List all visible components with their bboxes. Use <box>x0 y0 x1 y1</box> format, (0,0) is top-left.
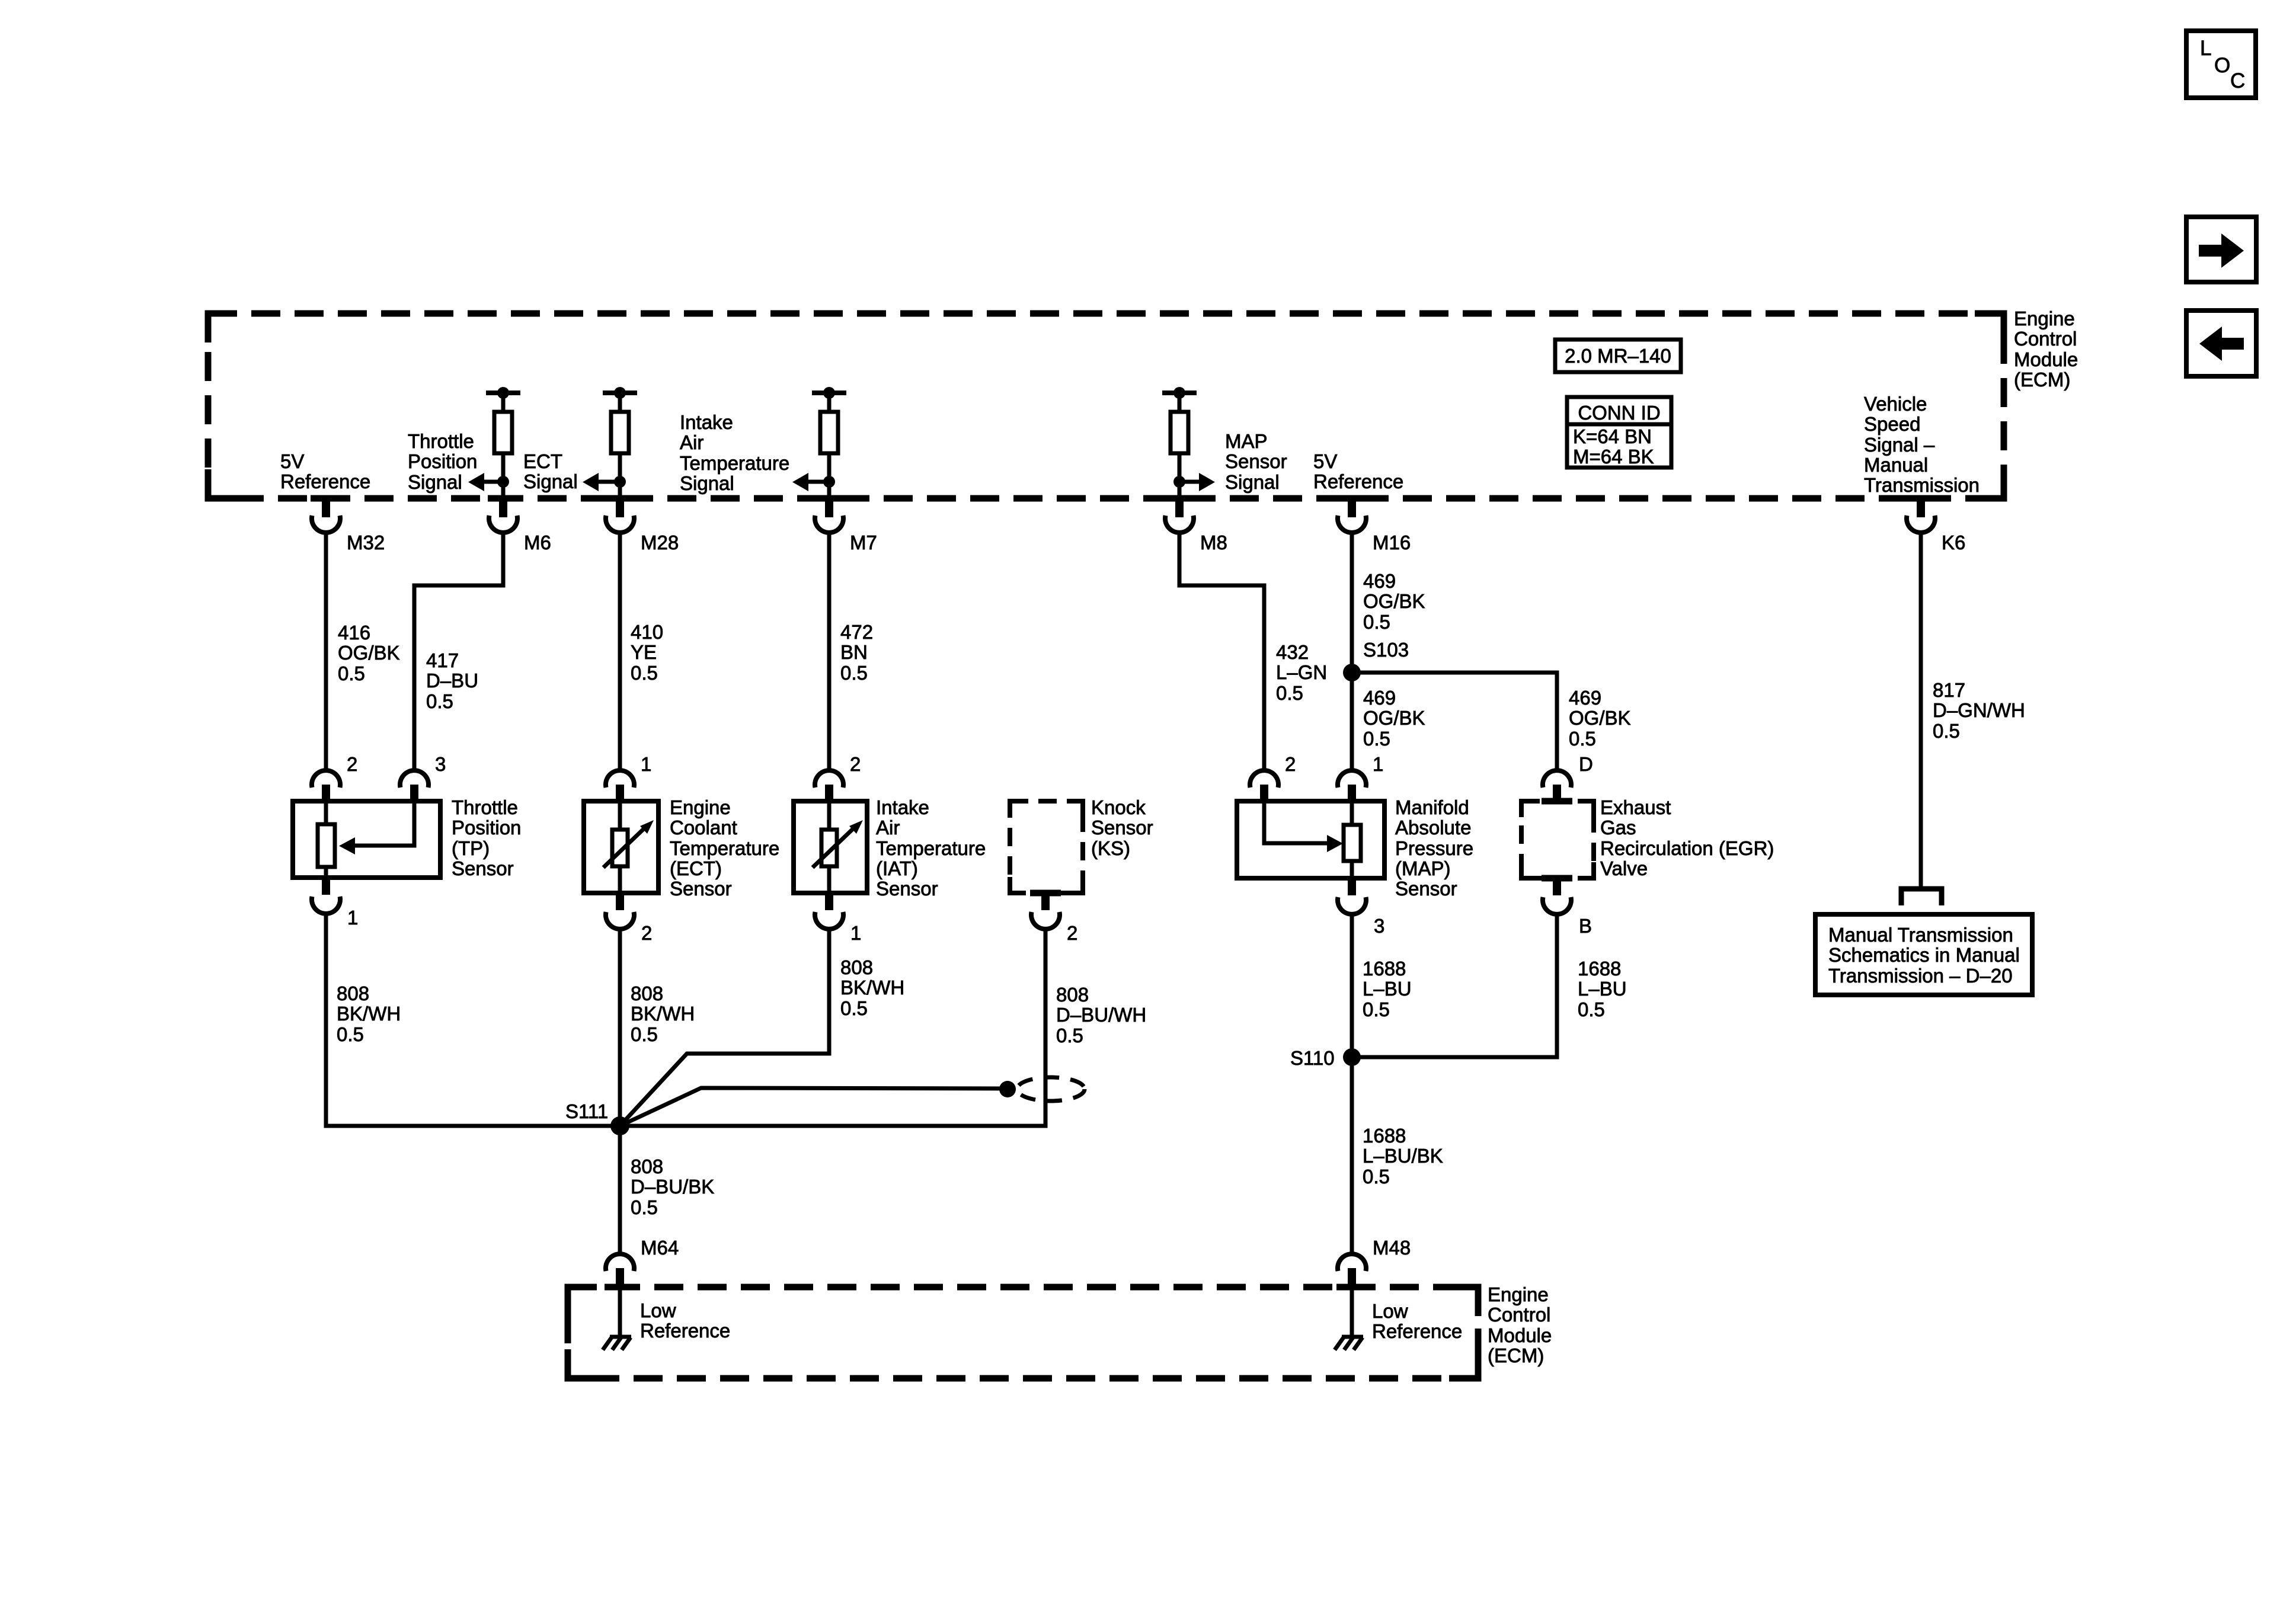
low reference wire M64 <box>618 1290 622 1336</box>
svg-text:S110: S110 <box>1290 1047 1335 1069</box>
svg-text:Signal: Signal <box>408 471 462 493</box>
ECM pin M48 <box>1338 1237 1411 1290</box>
svg-text:Transmission – D–20: Transmission – D–20 <box>1828 965 2013 987</box>
svg-text:3: 3 <box>435 753 446 775</box>
ECM bottom dashed box <box>568 1287 1478 1378</box>
svg-text:Signal: Signal <box>680 472 734 494</box>
ground symbol (M64 low reference) <box>603 1337 631 1350</box>
svg-text:M=64 BK: M=64 BK <box>1573 446 1654 468</box>
svg-text:D–BU/BK: D–BU/BK <box>631 1176 714 1198</box>
ECM label (bottom) <box>1488 1283 1552 1366</box>
svg-text:0.5: 0.5 <box>337 1023 364 1045</box>
wire 817 D-GN/WH: K6 to manual transmission <box>1919 530 1923 886</box>
svg-text:432: 432 <box>1276 641 1309 663</box>
svg-text:1: 1 <box>1373 753 1383 775</box>
svg-text:L–BU/BK: L–BU/BK <box>1363 1145 1443 1167</box>
drain wire to S111 <box>620 1088 1008 1126</box>
wire 410 YE: M28 to ECT pin 1 <box>618 530 622 770</box>
svg-text:Low: Low <box>640 1299 676 1321</box>
wire 432 L-GN: M8 jog to MAP pin 2 <box>1179 530 1264 770</box>
ECM pin M64 <box>606 1237 679 1290</box>
svg-text:M7: M7 <box>850 532 877 553</box>
svg-text:Sensor: Sensor <box>1395 878 1457 900</box>
svg-text:Module: Module <box>1488 1324 1552 1346</box>
svg-text:Schematics in Manual: Schematics in Manual <box>1828 944 2020 966</box>
svg-text:0.5: 0.5 <box>1276 682 1303 704</box>
wire 808 D-BU/BK: S111 to M64 <box>618 1126 622 1254</box>
splice S103 <box>1343 639 1409 681</box>
ECM pin M6 <box>489 499 551 553</box>
svg-text:M28: M28 <box>641 532 679 553</box>
wire 469 OG/BK: S103 to MAP pin 1 <box>1350 673 1354 770</box>
svg-text:OG/BK: OG/BK <box>1569 707 1631 729</box>
svg-text:0.5: 0.5 <box>1056 1025 1083 1046</box>
svg-text:Reference: Reference <box>640 1320 730 1342</box>
manual transmission callout box <box>1815 914 2032 995</box>
wire label 432 L-GN 0.5 <box>1276 641 1327 704</box>
wire 416 OG/BK: M32 to TP pin 2 <box>324 530 328 770</box>
svg-text:2.0 MR–140: 2.0 MR–140 <box>1565 345 1671 367</box>
off-page connector bracket (K6 wire end) <box>1901 889 1942 905</box>
MAP sensor pin 2 <box>1250 753 1296 802</box>
svg-text:Manual: Manual <box>1864 454 1928 476</box>
ECM pin K6 <box>1907 499 1965 553</box>
ECM label (top right) <box>2014 308 2078 391</box>
svg-text:Temperature: Temperature <box>876 837 986 859</box>
svg-text:Gas: Gas <box>1600 817 1636 838</box>
svg-text:OG/BK: OG/BK <box>1363 590 1425 612</box>
svg-text:OG/BK: OG/BK <box>1363 707 1425 729</box>
wire 1688 L-BU/BK: S110 to M48 <box>1350 1057 1354 1254</box>
svg-text:0.5: 0.5 <box>1363 611 1390 633</box>
svg-text:(ECM): (ECM) <box>1488 1345 1544 1366</box>
svg-text:0.5: 0.5 <box>338 662 365 684</box>
wire label 808 D-BU/WH 0.5 (KS) <box>1056 984 1146 1046</box>
svg-text:L: L <box>2200 37 2211 60</box>
svg-text:M16: M16 <box>1373 532 1411 553</box>
ECM pin M7 <box>815 499 877 553</box>
svg-text:Manual Transmission: Manual Transmission <box>1828 924 2013 946</box>
forward arrow box <box>2186 217 2256 282</box>
svg-text:(IAT): (IAT) <box>876 857 918 879</box>
svg-text:1: 1 <box>347 907 358 929</box>
svg-text:0.5: 0.5 <box>631 662 658 684</box>
svg-text:Recirculation (EGR): Recirculation (EGR) <box>1600 837 1774 859</box>
svg-text:Module: Module <box>2014 348 2078 370</box>
svg-text:D–BU/WH: D–BU/WH <box>1056 1004 1146 1026</box>
svg-text:808: 808 <box>631 1156 663 1177</box>
svg-text:0.5: 0.5 <box>840 997 868 1019</box>
wire 472 BN: M7 to IAT pin 2 <box>827 530 832 770</box>
CONN ID box <box>1567 397 1671 468</box>
svg-text:Transmission: Transmission <box>1864 474 1980 496</box>
svg-text:YE: YE <box>631 641 657 663</box>
wire 1688 L-BU: EGR pin B to S110 <box>1352 912 1557 1057</box>
net label 5V Reference (left) <box>280 450 370 492</box>
EGR label <box>1600 796 1774 879</box>
wire label 417 D-BU 0.5 <box>426 649 478 712</box>
svg-text:K=64 BN: K=64 BN <box>1573 425 1652 447</box>
svg-text:K6: K6 <box>1942 532 1965 553</box>
EGR pin B <box>1543 878 1592 937</box>
svg-text:L–BU: L–BU <box>1578 978 1627 1000</box>
ECM pin M32 <box>312 499 385 553</box>
svg-text:0.5: 0.5 <box>631 1023 658 1045</box>
svg-text:B: B <box>1579 915 1592 937</box>
svg-text:MAP: MAP <box>1225 430 1268 452</box>
TP sensor label <box>452 796 521 879</box>
svg-text:M8: M8 <box>1200 532 1227 553</box>
svg-text:Air: Air <box>876 817 900 838</box>
wire 808 BK/WH: ECT pin 2 down to S111 <box>618 927 622 1126</box>
svg-text:808: 808 <box>337 982 369 1004</box>
svg-text:0.5: 0.5 <box>1578 998 1605 1020</box>
svg-text:Vehicle: Vehicle <box>1864 393 1927 415</box>
wire label 410 YE 0.5 <box>631 621 663 684</box>
svg-text:OG/BK: OG/BK <box>338 642 400 664</box>
svg-text:0.5: 0.5 <box>1363 1166 1390 1188</box>
resistor + arrow, TP signal (above M6) <box>468 387 520 500</box>
svg-text:410: 410 <box>631 621 663 643</box>
wire label 817 D-GN/WH 0.5 <box>1933 679 2025 742</box>
wire label 469 OG/BK 0.5 (upper) <box>1363 570 1425 633</box>
resistor + arrow, ECT signal (above M28) <box>583 387 637 500</box>
wire 469 OG/BK: S103 branch to EGR pin D <box>1352 673 1557 770</box>
ECT sensor pin 2 <box>606 893 652 944</box>
svg-text:S111: S111 <box>565 1100 608 1122</box>
svg-text:Pressure: Pressure <box>1395 837 1473 859</box>
svg-text:Signal –: Signal – <box>1864 434 1935 456</box>
EGR valve dashed box <box>1521 801 1594 878</box>
ECM pin M8 <box>1165 499 1227 553</box>
svg-text:Signal: Signal <box>523 470 578 492</box>
ECM top dashed box <box>208 313 2004 498</box>
svg-text:Sensor: Sensor <box>670 878 732 900</box>
svg-text:Engine: Engine <box>670 796 731 818</box>
IAT sensor pin 2 <box>815 753 861 802</box>
wire 1688 L-BU: MAP pin 3 to S110 <box>1350 912 1354 1057</box>
svg-text:0.5: 0.5 <box>840 662 868 684</box>
svg-text:469: 469 <box>1363 687 1396 709</box>
wire 417 D-BU: M6 jog to TP pin 3 <box>414 530 503 770</box>
svg-text:Throttle: Throttle <box>452 796 518 818</box>
splice S111 <box>565 1100 629 1135</box>
svg-text:0.5: 0.5 <box>631 1196 658 1218</box>
wire label 1688 L-BU 0.5 (MAP) <box>1363 958 1412 1020</box>
svg-text:Manifold: Manifold <box>1395 796 1469 818</box>
wire 808 BK/WH: IAT pin 1 jog to S111 <box>620 927 829 1126</box>
engine coolant temperature sensor box <box>584 801 658 893</box>
back arrow box <box>2186 311 2256 376</box>
svg-text:ECT: ECT <box>523 450 562 472</box>
svg-text:D–BU: D–BU <box>426 670 478 692</box>
svg-text:472: 472 <box>840 621 873 643</box>
svg-text:M6: M6 <box>524 532 551 553</box>
svg-text:(ECT): (ECT) <box>670 857 722 879</box>
svg-text:469: 469 <box>1569 687 1601 709</box>
ECT sensor label <box>670 796 779 900</box>
IAT sensor pin 1 <box>815 893 861 944</box>
EGR pin D <box>1543 753 1593 802</box>
svg-text:Coolant: Coolant <box>670 817 737 838</box>
svg-text:L–GN: L–GN <box>1276 661 1327 683</box>
svg-text:5V: 5V <box>1313 450 1337 472</box>
svg-text:Intake: Intake <box>876 796 929 818</box>
svg-text:Speed: Speed <box>1864 413 1920 435</box>
net label Throttle Position Signal <box>408 430 477 493</box>
svg-text:Reference: Reference <box>1372 1320 1462 1342</box>
svg-text:Position: Position <box>408 450 477 472</box>
svg-text:Reference: Reference <box>1313 470 1403 492</box>
svg-text:2: 2 <box>1285 753 1296 775</box>
splice S110 <box>1290 1047 1361 1069</box>
manifold absolute pressure sensor box <box>1237 801 1384 878</box>
svg-text:(KS): (KS) <box>1091 837 1130 859</box>
ECT sensor pin 1 <box>606 753 651 802</box>
svg-text:3: 3 <box>1374 915 1384 937</box>
wire 469 OG/BK: M16 down to S103 <box>1350 530 1354 673</box>
wire 808 BK/WH: TP pin 1 down to S111 <box>326 911 620 1126</box>
svg-text:D: D <box>1579 753 1593 775</box>
MAP sensor label <box>1395 796 1473 900</box>
svg-text:469: 469 <box>1363 570 1396 592</box>
svg-text:416: 416 <box>338 622 370 644</box>
TP sensor pin 2 <box>312 753 357 802</box>
svg-text:BK/WH: BK/WH <box>631 1003 695 1025</box>
svg-text:S103: S103 <box>1363 639 1409 661</box>
svg-text:2: 2 <box>850 753 861 775</box>
svg-text:0.5: 0.5 <box>426 690 453 712</box>
drain splice dot <box>999 1081 1016 1097</box>
label Low Reference (M48) <box>1372 1300 1462 1342</box>
TP sensor pin 3 <box>400 753 446 802</box>
svg-text:Engine: Engine <box>2014 308 2075 329</box>
svg-text:CONN ID: CONN ID <box>1578 402 1660 424</box>
label Low Reference (M64) <box>640 1299 730 1342</box>
svg-text:O: O <box>2214 54 2230 77</box>
wire label 808 BK/WH 0.5 (IAT) <box>840 956 904 1019</box>
svg-text:808: 808 <box>631 982 663 1004</box>
svg-text:Air: Air <box>680 431 703 453</box>
svg-text:Engine: Engine <box>1488 1283 1549 1305</box>
svg-text:417: 417 <box>426 649 459 671</box>
resistor + arrow, MAP signal (above M8) <box>1162 387 1215 500</box>
svg-text:1: 1 <box>850 922 861 944</box>
wire label 472 BN 0.5 <box>840 621 873 684</box>
IAT sensor label <box>876 796 986 900</box>
wire label 416 OG/BK 0.5 <box>338 622 400 684</box>
dash segments at pin crossings <box>311 498 1936 1287</box>
intake air temperature sensor box <box>794 801 867 893</box>
svg-text:1688: 1688 <box>1578 958 1621 980</box>
svg-text:(ECM): (ECM) <box>2014 369 2070 391</box>
svg-text:Throttle: Throttle <box>408 430 474 452</box>
MAP sensor pin 1 <box>1338 753 1383 802</box>
resistor + arrow, IAT signal (above M7) <box>792 387 846 500</box>
KS label <box>1091 796 1153 859</box>
svg-text:2: 2 <box>1067 922 1077 944</box>
svg-text:Sensor: Sensor <box>876 878 938 900</box>
net label ECT Signal <box>523 450 578 492</box>
svg-text:Exhaust: Exhaust <box>1600 796 1671 818</box>
svg-text:Temperature: Temperature <box>670 837 779 859</box>
svg-text:(MAP): (MAP) <box>1395 857 1451 879</box>
wire label 469 OG/BK 0.5 (right branch) <box>1569 687 1631 750</box>
ECM pin M28 <box>606 499 679 553</box>
knock sensor dashed box <box>1010 801 1083 893</box>
svg-text:M48: M48 <box>1373 1237 1411 1259</box>
svg-text:5V: 5V <box>280 450 304 472</box>
svg-text:Valve: Valve <box>1600 857 1648 879</box>
svg-text:1: 1 <box>641 753 651 775</box>
svg-text:BN: BN <box>840 641 868 663</box>
svg-text:Control: Control <box>1488 1304 1550 1326</box>
ECM pin M16 <box>1338 499 1411 553</box>
svg-text:Sensor: Sensor <box>452 857 514 879</box>
svg-text:Intake: Intake <box>680 411 733 433</box>
svg-text:Sensor: Sensor <box>1225 450 1287 472</box>
svg-text:M64: M64 <box>641 1237 679 1259</box>
svg-text:808: 808 <box>840 956 873 978</box>
net label Intake Air Temperature Signal <box>680 411 789 494</box>
svg-text:0.5: 0.5 <box>1363 728 1390 750</box>
svg-text:0.5: 0.5 <box>1363 998 1390 1020</box>
net label Vehicle Speed Signal - Manual Transmission <box>1864 393 1980 496</box>
svg-text:Temperature: Temperature <box>680 452 789 474</box>
LOC reference box <box>2186 31 2256 98</box>
low reference wire M48 <box>1350 1290 1354 1336</box>
wire label 1688 L-BU/BK 0.5 <box>1363 1125 1443 1188</box>
svg-text:Knock: Knock <box>1091 796 1146 818</box>
svg-text:1688: 1688 <box>1363 1125 1406 1147</box>
2.0 MR-140 box <box>1555 340 1681 372</box>
svg-text:0.5: 0.5 <box>1569 728 1596 750</box>
wire label 808 BK/WH 0.5 (TP) <box>337 982 401 1045</box>
svg-text:808: 808 <box>1056 984 1089 1006</box>
svg-text:L–BU: L–BU <box>1363 978 1412 1000</box>
svg-text:Absolute: Absolute <box>1395 817 1471 838</box>
svg-text:Low: Low <box>1372 1300 1408 1322</box>
svg-text:Sensor: Sensor <box>1091 817 1153 838</box>
svg-text:Signal: Signal <box>1225 471 1280 493</box>
svg-text:BK/WH: BK/WH <box>337 1003 401 1025</box>
svg-text:0.5: 0.5 <box>1933 720 1960 742</box>
wire label 808 D-BU/BK 0.5 <box>631 1156 714 1218</box>
svg-text:M32: M32 <box>347 532 385 553</box>
TP sensor pin 1 <box>312 878 358 929</box>
wire label 808 BK/WH 0.5 (ECT) <box>631 982 695 1045</box>
MAP sensor pin 3 <box>1338 878 1384 937</box>
svg-text:Position: Position <box>452 817 521 838</box>
net label 5V Reference (right) <box>1313 450 1403 492</box>
svg-text:BK/WH: BK/WH <box>840 977 904 998</box>
shielded cable ellipse at KS drain <box>1017 1077 1085 1101</box>
svg-text:817: 817 <box>1933 679 1965 701</box>
svg-text:2: 2 <box>347 753 357 775</box>
net label MAP Sensor Signal <box>1225 430 1287 493</box>
svg-text:(TP): (TP) <box>452 837 490 859</box>
svg-text:Reference: Reference <box>280 470 370 492</box>
throttle position sensor box <box>293 801 440 878</box>
wire label 469 OG/BK 0.5 (below S103) <box>1363 687 1425 750</box>
wire label 1688 L-BU 0.5 (EGR) <box>1578 958 1627 1020</box>
ground symbol (M48 low reference) <box>1335 1337 1363 1350</box>
svg-text:C: C <box>2230 69 2245 92</box>
KS pin 2 <box>1031 893 1077 944</box>
svg-text:1688: 1688 <box>1363 958 1406 980</box>
svg-text:Control: Control <box>2014 328 2077 350</box>
wire 808 D-BU/WH: KS pin 2 down to S111 <box>620 927 1045 1126</box>
svg-text:2: 2 <box>641 922 652 944</box>
svg-text:D–GN/WH: D–GN/WH <box>1933 699 2025 721</box>
